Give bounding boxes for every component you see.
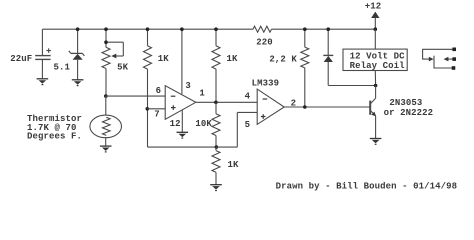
wire relay to node F (374, 71, 376, 86)
wire U1B output (284, 106, 370, 108)
svg-text:2N3053: 2N3053 (389, 98, 422, 108)
node C (R3/R4/out1) (214, 101, 218, 105)
svg-text:6: 6 (156, 86, 162, 96)
label K1 (350, 52, 406, 72)
svg-text:Relay Coil: Relay Coil (350, 61, 406, 71)
resistor R7 2.2K (301, 29, 309, 107)
svg-text:10K: 10K (195, 119, 212, 129)
label credit (276, 182, 458, 192)
svg-text:1K: 1K (228, 160, 240, 170)
svg-text:Degrees F.: Degrees F. (27, 131, 82, 141)
svg-text:or 2N2222: or 2N2222 (384, 108, 434, 118)
svg-text:4: 4 (245, 92, 251, 102)
resistor R3 1K (pull-up) (212, 29, 220, 102)
junction rail-R7 (303, 27, 307, 31)
ground (below D1) (72, 80, 84, 86)
label pin 12 (170, 119, 181, 129)
ground (below R5) (210, 185, 222, 191)
label Q1 (384, 98, 434, 118)
diode D2 (323, 29, 375, 85)
relay coil K1 box (343, 49, 407, 70)
node E (R7/base wire) (303, 105, 307, 109)
junction rail-pin3 (180, 27, 184, 31)
label U1A minus (171, 95, 176, 97)
label U1B minus (263, 98, 268, 100)
svg-text:5.1: 5.1 (54, 62, 71, 72)
label U1A plus (171, 105, 176, 110)
node pot wiper (104, 40, 108, 44)
thermistor TH1 (90, 115, 122, 146)
label U1B LM339 (252, 79, 280, 89)
label thermistor (27, 114, 82, 141)
junction rail-R3 (214, 27, 218, 31)
svg-text:7: 7 (154, 109, 160, 119)
transistor Q1 (370, 86, 376, 139)
label U1B plus (261, 114, 266, 119)
zener D1 5.1 (69, 29, 85, 79)
wire top +V rail (right segment) (272, 28, 376, 30)
wire rail to relay (374, 29, 376, 49)
label R6 220 (256, 38, 273, 48)
resistor R4 10K (212, 102, 220, 147)
relay contacts (423, 48, 456, 70)
wire pin7 (147, 108, 165, 110)
svg-text:3: 3 (185, 81, 191, 91)
label pin 7 (154, 109, 160, 119)
label pin 1 (199, 89, 205, 99)
svg-text:12: 12 (170, 119, 181, 129)
label pin 6 (156, 86, 162, 96)
label pin 3 (185, 81, 191, 91)
label R3 1K (227, 54, 239, 64)
resistor R2 1K (144, 29, 152, 147)
label C1 22uF (10, 54, 32, 64)
junction rail-pot (104, 27, 108, 31)
op-amp U1B (257, 89, 284, 124)
svg-text:2,2 K: 2,2 K (269, 55, 297, 65)
label pin 2 (291, 98, 297, 108)
node D (R4/R5) (215, 145, 219, 149)
wire pin6 (106, 95, 165, 97)
label D1 5.1 (54, 62, 71, 72)
label +12 (365, 2, 382, 12)
junction rail-R2 (146, 27, 150, 31)
svg-text:220: 220 (256, 38, 273, 48)
label R2 1K (158, 54, 170, 64)
svg-text:12 Volt DC: 12 Volt DC (350, 52, 406, 62)
svg-text:1: 1 (199, 89, 205, 99)
resistor R5 1K (to gnd) (212, 147, 220, 184)
potentiometer R1 5K (102, 29, 123, 96)
wire node D to pin5 (216, 112, 257, 147)
ground (below thermistor) (100, 146, 112, 152)
node F (relay/diode/collector) (374, 84, 378, 88)
wire node B to divider (148, 146, 217, 148)
capacitor C1 22uF (35, 29, 51, 78)
svg-text:5K: 5K (117, 62, 129, 72)
svg-text:5: 5 (245, 120, 251, 130)
svg-text:+12: +12 (365, 2, 382, 12)
ground (emitter) (370, 139, 382, 145)
op-amp U1A (165, 86, 196, 120)
svg-text:Drawn by - Bill Bouden - 01/14: Drawn by - Bill Bouden - 01/14/98 (276, 182, 458, 192)
wire pin12 (gnd) (181, 110, 183, 132)
svg-text:1K: 1K (227, 54, 239, 64)
resistor R6 220 (253, 26, 272, 32)
power +12 arrow (371, 12, 379, 30)
svg-text:LM339: LM339 (252, 79, 280, 89)
ground (pin 12) (177, 132, 189, 138)
ground (below C1) (37, 79, 49, 85)
node B (pin7) (146, 107, 150, 111)
svg-text:22uF: 22uF (10, 54, 32, 64)
label R1 5K (117, 62, 129, 72)
wire U1A output (196, 101, 257, 103)
junction rail-supply (374, 27, 378, 31)
wire node A to thermistor (105, 96, 107, 115)
svg-text:1K: 1K (158, 54, 170, 64)
label pin 4 (245, 92, 251, 102)
node A (pot/thermistor/pin6) (104, 94, 108, 98)
label R5 1K (228, 160, 240, 170)
label R7 2,2 K (269, 55, 297, 65)
label R4 10K (195, 119, 212, 129)
svg-text:2: 2 (291, 98, 297, 108)
wire top +V rail (left segment) (42, 28, 253, 30)
junction rail-D2 (326, 27, 330, 31)
wire pin3 (V+) (181, 29, 183, 94)
junction rail-zener (76, 27, 80, 31)
label pin 5 (245, 120, 251, 130)
